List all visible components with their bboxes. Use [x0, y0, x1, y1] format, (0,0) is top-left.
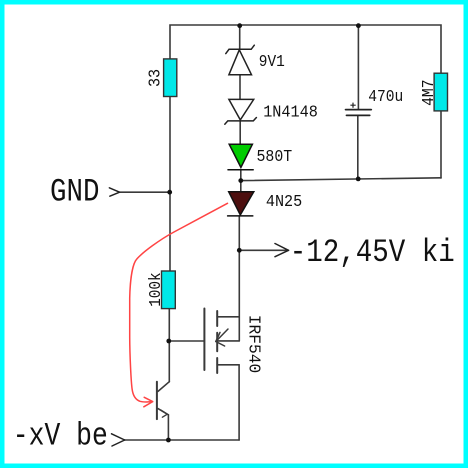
svg-text:4M7: 4M7 [420, 80, 439, 106]
svg-text:100k: 100k [147, 272, 166, 306]
GND input chevron [109, 188, 119, 196]
junction node gate [166, 339, 171, 344]
wire zener top [239, 26, 241, 49]
capacitor plus sign [350, 103, 355, 108]
zener diode 9V1 [226, 45, 255, 75]
junction node output [237, 248, 242, 253]
wire left branch lower [168, 309, 170, 382]
svg-text:IRF540: IRF540 [244, 315, 263, 374]
wire cap bottom [357, 115, 359, 179]
wire 1N4148 to 580T [239, 121, 241, 144]
diode 1N4148 [225, 99, 257, 124]
wire zener to 1N4148 [239, 75, 241, 99]
wire mid rail right [241, 178, 441, 181]
-xV input chevron [112, 434, 125, 446]
output arrow chevron [275, 244, 289, 257]
svg-text:1N4148: 1N4148 [263, 103, 318, 122]
wire 580T to node [240, 170, 242, 192]
junction node cap bottom [356, 177, 361, 182]
optocoupler LED 4N25 [228, 192, 254, 216]
svg-text:9V1: 9V1 [259, 53, 285, 72]
resistor 100k [162, 271, 176, 309]
wire source down [238, 365, 240, 440]
wire 4N25 to drain [238, 216, 240, 341]
svg-text:470u: 470u [368, 88, 403, 107]
red feedback wire [130, 203, 228, 406]
svg-text:-xV be: -xV be [13, 417, 108, 454]
junction node 580T [238, 178, 243, 183]
junction node top cap [356, 23, 361, 28]
wire bottom rail [125, 439, 240, 441]
LED 580T [228, 144, 253, 170]
svg-text:580T: 580T [257, 148, 293, 167]
wire 4M7 bottom [440, 111, 442, 178]
svg-text:GND: GND [50, 173, 100, 210]
resistor 33 [164, 59, 177, 97]
wire output arrow [239, 249, 288, 251]
wire emitter down [167, 415, 169, 440]
svg-text:-12,45V ki: -12,45V ki [290, 234, 455, 271]
wire left branch upper [169, 97, 171, 272]
wire gate tap [169, 340, 205, 342]
transistor Q1 [157, 382, 169, 419]
svg-text:33: 33 [146, 69, 165, 87]
junction node emitter [166, 438, 171, 443]
resistor 4M7 [434, 73, 447, 111]
wire top rail [170, 25, 441, 73]
junction node GND [167, 190, 172, 195]
junction node top diode [237, 23, 242, 28]
MOSFET IRF540 [204, 309, 239, 374]
wire GND input [120, 191, 170, 193]
svg-text:4N25: 4N25 [266, 193, 302, 212]
wire cap top [357, 26, 359, 110]
capacitor 470u [346, 110, 372, 116]
